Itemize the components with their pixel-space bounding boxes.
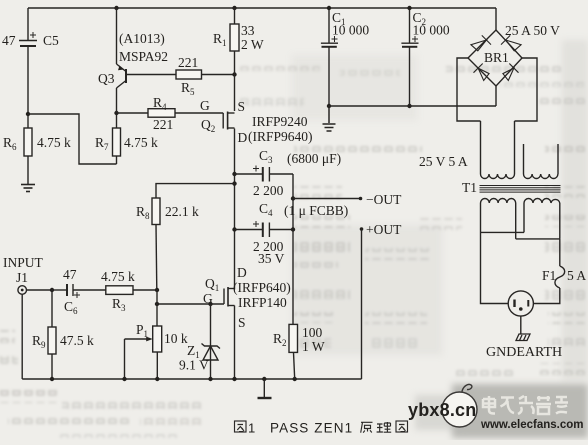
wire -OUT xyxy=(293,198,361,200)
label R2 xyxy=(273,325,325,354)
label Z1 xyxy=(179,343,209,373)
resistor R7 xyxy=(113,113,121,164)
node R6 top xyxy=(26,112,30,116)
svg-text:25 A 50 V: 25 A 50 V xyxy=(505,23,560,38)
wire bridge bottom to 0V rail xyxy=(495,86,497,106)
svg-text:1 W: 1 W xyxy=(302,339,325,354)
wire main vertical Q2 drain down xyxy=(234,129,236,290)
svg-text:D: D xyxy=(237,265,247,280)
wire +OUT down to rail xyxy=(361,229,363,379)
svg-text:47: 47 xyxy=(63,267,77,282)
node C1 top xyxy=(327,6,331,10)
svg-text:4.75 k: 4.75 k xyxy=(37,135,71,150)
svg-text:IRFP140: IRFP140 xyxy=(238,295,287,310)
diode lower-right xyxy=(503,64,519,81)
wire Q1 gate xyxy=(157,303,224,305)
svg-text:+OUT: +OUT xyxy=(366,222,402,237)
fuse F1 xyxy=(555,266,565,288)
svg-text:INPUT: INPUT xyxy=(3,255,44,270)
svg-text:9.1 V: 9.1 V xyxy=(179,358,209,373)
capacitor C5 xyxy=(19,32,37,114)
wire mains right upper xyxy=(559,239,561,266)
label T1 xyxy=(419,154,477,195)
svg-text:1: 1 xyxy=(248,421,255,436)
transistor Q3 xyxy=(117,8,127,113)
svg-text:www.elecfans.com: www.elecfans.com xyxy=(480,419,583,431)
label GNDEARTH xyxy=(486,345,562,360)
glyph 原 xyxy=(361,422,373,432)
ground mid rail xyxy=(258,379,272,398)
svg-text:MSPA92: MSPA92 xyxy=(119,49,168,64)
label R6 xyxy=(3,135,71,152)
node R9 top xyxy=(50,288,54,292)
resistor R8 xyxy=(152,184,235,290)
bridge rectifier BR1 xyxy=(468,30,522,86)
glyph 图 xyxy=(235,421,247,432)
svg-text:F1: F1 xyxy=(542,268,556,283)
mosfet Q2 xyxy=(223,112,234,130)
label R1 xyxy=(213,23,264,52)
svg-text:2 W: 2 W xyxy=(241,37,264,52)
label C4 xyxy=(253,201,285,266)
capacitor C4 xyxy=(235,221,294,237)
wire mains left xyxy=(481,232,509,303)
capacitor C6 xyxy=(52,284,106,298)
node C4 right xyxy=(291,227,295,231)
node gate junction xyxy=(155,302,159,306)
resistor R4 xyxy=(117,109,224,118)
node R1 top xyxy=(232,6,236,10)
glyph 理 xyxy=(377,422,392,432)
terminal +OUT xyxy=(360,227,364,231)
watermark logo circle xyxy=(442,384,477,427)
svg-text:10 k: 10 k xyxy=(164,331,188,346)
ground under R6 xyxy=(21,185,35,192)
svg-text:S: S xyxy=(238,315,246,330)
glyph 图 xyxy=(396,421,408,432)
wire gate node to pot xyxy=(156,290,158,326)
label R5 xyxy=(178,55,198,97)
resistor R1 xyxy=(230,8,239,111)
svg-text:33: 33 xyxy=(241,23,255,38)
svg-text:2 200: 2 200 xyxy=(253,183,284,198)
svg-text:(A1013): (A1013) xyxy=(119,31,165,46)
label R4 xyxy=(153,95,173,132)
wire top +V rail xyxy=(28,7,496,9)
node R8 tap xyxy=(232,181,236,185)
ground small on 0V rail xyxy=(323,106,336,131)
label INPUT J1 xyxy=(3,255,44,285)
label C3 xyxy=(253,148,341,198)
label BR1 xyxy=(484,23,560,65)
wire C3 to C4 node xyxy=(292,174,294,230)
diode upper-left xyxy=(471,35,491,50)
svg-text:T1: T1 xyxy=(462,180,477,195)
svg-text:4.75 k: 4.75 k xyxy=(124,135,158,150)
resistor R5 xyxy=(126,70,235,79)
svg-text:221: 221 xyxy=(153,117,173,132)
svg-text:Q3: Q3 xyxy=(98,71,115,86)
label C5 values xyxy=(2,33,59,48)
resistor R6 xyxy=(24,114,32,184)
svg-text:J1: J1 xyxy=(16,270,28,285)
svg-text:4.75 k: 4.75 k xyxy=(101,269,135,284)
node zener tap xyxy=(208,302,212,306)
label F1 xyxy=(542,268,586,283)
svg-text:IRFP9240: IRFP9240 xyxy=(252,114,308,129)
svg-text:(6800 μF): (6800 μF) xyxy=(287,151,341,166)
svg-text:47.5 k: 47.5 k xyxy=(60,333,94,348)
svg-text:(IRFP9640): (IRFP9640) xyxy=(248,129,313,144)
terminal -OUT xyxy=(359,197,363,201)
svg-text:BR1: BR1 xyxy=(484,50,509,65)
capacitor C1 xyxy=(321,8,338,106)
svg-text:D: D xyxy=(238,130,248,145)
node C3 tap xyxy=(232,172,236,176)
caption 图1 PASS ZEN1原理图 xyxy=(235,421,408,436)
label Q3 xyxy=(98,31,168,86)
label C6 xyxy=(63,267,78,316)
wire top rail to bridge xyxy=(495,8,497,30)
watermark chinese 电子发烧友 xyxy=(483,396,568,414)
node C1 bottom xyxy=(327,104,331,108)
wire R6 to R7 bottom xyxy=(28,114,117,164)
label C2 xyxy=(413,10,450,38)
resistor R2 xyxy=(289,230,298,380)
label P1 xyxy=(136,322,188,346)
svg-text:25 V 5 A: 25 V 5 A xyxy=(419,154,468,169)
svg-text:22.1 k: 22.1 k xyxy=(165,204,199,219)
resistor R9 xyxy=(48,290,56,379)
label R8 xyxy=(136,204,199,221)
chassis ground earth xyxy=(516,334,530,341)
svg-text:(1 μ FCBB): (1 μ FCBB) xyxy=(284,203,348,218)
svg-text:S: S xyxy=(238,99,246,114)
node rail dots xyxy=(50,377,297,381)
svg-text:5 A: 5 A xyxy=(567,268,586,283)
wire bridge left vertex to secondary xyxy=(457,58,481,121)
label Q2 pins xyxy=(200,98,313,145)
svg-text:C5: C5 xyxy=(43,33,59,48)
svg-text:ybx8.cn: ybx8.cn xyxy=(408,400,476,420)
wire mains right lower xyxy=(533,288,559,304)
label Q1 pins xyxy=(203,265,291,330)
node C4 tap xyxy=(232,227,236,231)
connector J1 xyxy=(18,286,52,379)
svg-text:(IRFP640): (IRFP640) xyxy=(233,280,291,295)
svg-text:221: 221 xyxy=(178,55,198,70)
wire primary parallel links xyxy=(481,231,525,233)
svg-text:PASS ZEN1: PASS ZEN1 xyxy=(270,421,353,436)
label R9 xyxy=(32,333,94,350)
potentiometer P1 xyxy=(125,326,162,379)
node -OUT tap xyxy=(291,196,295,200)
wire 0V rail xyxy=(329,105,496,107)
svg-text:10 000: 10 000 xyxy=(332,23,369,38)
node C2 bottom xyxy=(407,104,411,108)
svg-text:100: 100 xyxy=(302,325,323,340)
wire bottom rail xyxy=(22,378,361,380)
node R3 right xyxy=(155,288,159,292)
wire left rail to C5 xyxy=(27,8,29,40)
diode lower-left xyxy=(474,64,490,81)
node R7 top junction xyxy=(114,111,118,115)
svg-text:G: G xyxy=(200,98,210,113)
resistor R3 xyxy=(106,286,157,295)
svg-text:47: 47 xyxy=(2,33,16,48)
diode upper-right xyxy=(501,35,521,50)
label C1 xyxy=(332,10,369,38)
label R3 xyxy=(101,269,135,313)
wire bridge right vertex to secondary xyxy=(515,58,538,121)
svg-text:−OUT: −OUT xyxy=(366,192,402,207)
label R7 xyxy=(95,135,158,152)
svg-text:10 000: 10 000 xyxy=(413,23,450,38)
node top rail Q3 emitter xyxy=(114,6,118,10)
svg-text:35 V: 35 V xyxy=(258,251,285,266)
zener Z1 xyxy=(202,304,221,379)
node R5 right xyxy=(232,72,236,76)
transformer T1 xyxy=(480,121,561,239)
plug xyxy=(508,291,533,316)
capacitor C2 xyxy=(401,8,418,106)
wire plug to earth xyxy=(520,316,522,333)
capacitor C3 xyxy=(235,166,294,182)
svg-text:GNDEARTH: GNDEARTH xyxy=(486,345,562,360)
node C2 top xyxy=(407,6,411,10)
mosfet Q1 xyxy=(224,287,235,379)
